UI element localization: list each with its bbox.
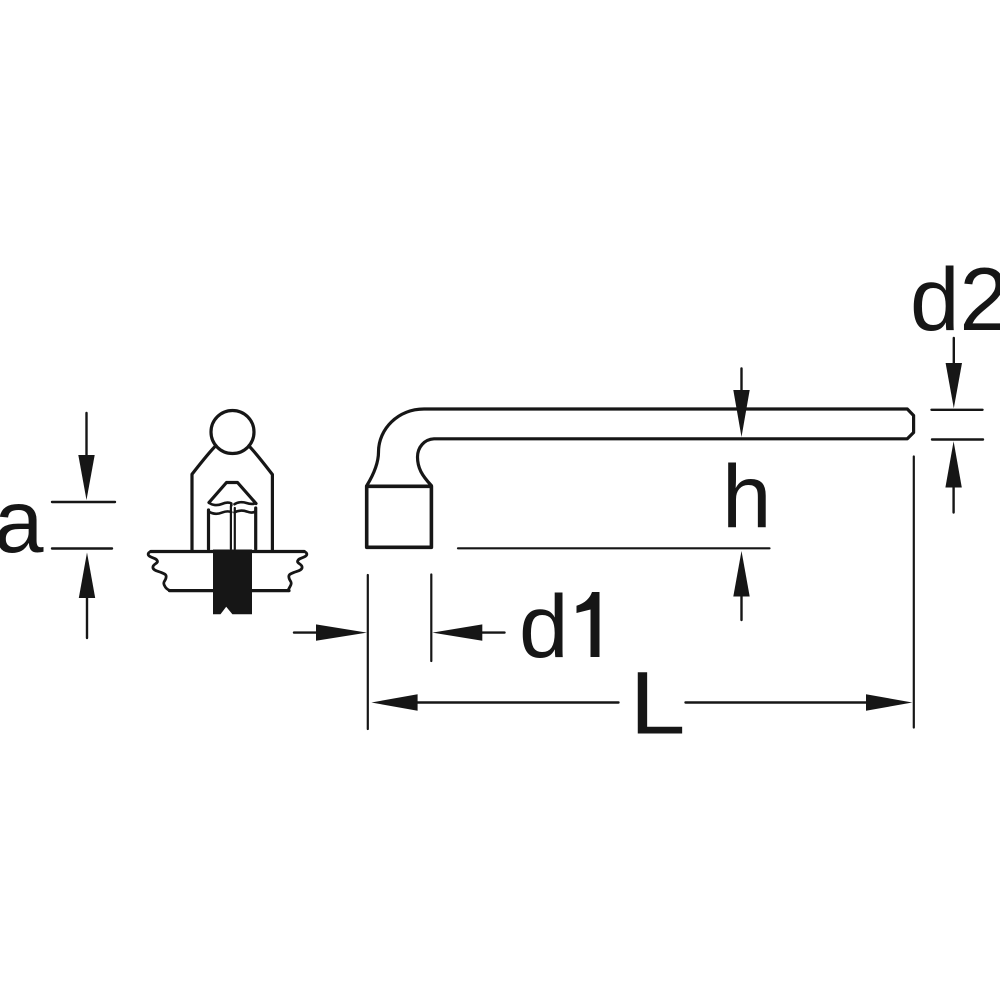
dimension a: up arrow line bbox=[86, 597, 88, 638]
dimension d2: down arrow line bbox=[953, 338, 955, 365]
bell-shaped socket body right outline bbox=[249, 446, 272, 551]
digit 1 of label d1 drawn as path bbox=[577, 592, 600, 657]
wrench outer outline with bend and chamfered handle end bbox=[367, 409, 914, 486]
dimension L: left arrowhead pointing left bbox=[371, 694, 417, 710]
dimension d2: up arrowhead bbox=[945, 441, 961, 487]
dimension h: up arrowhead bbox=[733, 551, 749, 597]
bell-shaped socket body left outline bbox=[192, 446, 216, 551]
stud chamfered tip bbox=[209, 483, 256, 504]
ball head circle of stud figure bbox=[211, 411, 254, 454]
sheet surface top line bbox=[151, 550, 304, 553]
dimension a: lower tick line bbox=[52, 547, 112, 549]
wrench socket square bbox=[367, 486, 432, 547]
stud centre slot left line bbox=[230, 506, 232, 549]
svg-text:L: L bbox=[630, 653, 686, 753]
sheet surface bottom line bbox=[170, 589, 290, 592]
dimension a: down arrowhead bbox=[78, 455, 94, 500]
svg-text:h: h bbox=[722, 446, 772, 546]
dimension L: right dimension line segment bbox=[686, 701, 868, 703]
dimension h: down arrowhead bbox=[733, 390, 749, 437]
dimension d1: left arrow tail bbox=[294, 631, 318, 633]
dimension d2: up arrow line bbox=[952, 487, 954, 513]
stud upper wavy thread line bbox=[209, 502, 256, 505]
dimension d2: upper tick line bbox=[932, 409, 983, 411]
svg-text:d2: d2 bbox=[910, 249, 1000, 349]
dimension h: up arrow line bbox=[740, 596, 742, 620]
dimension L: right extension line bbox=[913, 457, 915, 728]
dimension a: up arrowhead bbox=[79, 553, 95, 599]
sheet surface right break squiggle bbox=[288, 552, 306, 591]
black stud shank through sheet bbox=[213, 550, 252, 615]
stud body left edge bbox=[207, 510, 210, 549]
stud lower wavy thread line bbox=[209, 511, 256, 514]
dimension h: down arrow line bbox=[740, 369, 742, 393]
dimension d1: right arrow tail bbox=[481, 631, 505, 633]
dimension d2: down arrowhead bbox=[946, 363, 962, 408]
dimension a: upper tick line bbox=[52, 501, 115, 503]
dimension L: left dimension line segment bbox=[417, 701, 619, 703]
svg-text:d: d bbox=[519, 576, 569, 676]
sheet surface left break squiggle bbox=[148, 552, 170, 591]
dimension d1: left arrowhead pointing right bbox=[316, 624, 367, 640]
dimension L: right arrowhead pointing right bbox=[866, 694, 912, 710]
dimension d1: right extension line bbox=[430, 575, 432, 662]
stud centre slot right line bbox=[234, 508, 236, 549]
stud body right edge bbox=[254, 508, 257, 549]
dimension d1: right arrowhead pointing left bbox=[432, 624, 482, 640]
dimension d2: lower tick line bbox=[932, 438, 983, 440]
svg-text:a: a bbox=[0, 471, 44, 571]
dimension a: down arrow line bbox=[85, 413, 87, 457]
dimension d1: left extension line shared with L bbox=[367, 575, 369, 729]
dimension h: baseline bbox=[458, 547, 770, 549]
